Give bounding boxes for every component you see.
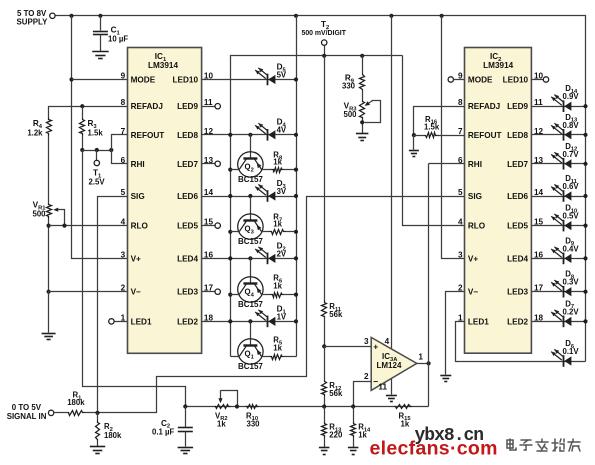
svg-text:V−: V− [131,288,141,297]
svg-text:56k: 56k [329,389,343,398]
wire V- to ground [48,292,50,333]
svg-text:6: 6 [121,156,126,165]
LED D10 [563,220,565,232]
svg-text:LED2: LED2 [177,317,198,326]
resistor R9 [360,74,365,91]
LED D6 [563,355,565,367]
potentiometer VR3 [360,101,365,120]
svg-text:7: 7 [458,127,463,136]
junction R1 R2 sig [95,411,99,415]
junction R14 minus node [351,404,355,408]
resistor R2 [96,421,100,441]
wire bus LED supply [296,16,298,357]
svg-text:1k: 1k [401,419,410,428]
ground IC2 V- [440,375,451,377]
wire R16 ground stub [413,136,415,150]
terminal pin11 nc [215,104,220,109]
svg-text:LED7: LED7 [507,160,528,169]
svg-text:500: 500 [343,110,357,119]
svg-text:1k: 1k [273,158,282,167]
junction D7-bus [583,319,587,323]
wire Q4 emitter [262,294,271,296]
wire R2 bottom [97,441,99,447]
svg-text:V−: V− [468,288,478,297]
wiper VR3 [365,101,381,123]
junction VR3 wiper [360,120,364,124]
svg-text:LED3: LED3 [177,288,198,297]
wire D8 row [532,291,586,293]
LED D4 [267,129,269,141]
wire R7 to bus [286,231,297,233]
resistor R16 [425,133,438,138]
junction Q2 collector [228,168,232,172]
wire ref junction row [83,150,112,152]
svg-text:14: 14 [534,188,544,197]
wire T2 stub [324,46,326,56]
junction mode-supply [69,77,73,81]
svg-text:LM124: LM124 [377,361,402,370]
wire T2 to IC2 RLO [403,56,465,226]
watermark char dian [507,439,516,450]
terminal supply [50,13,55,18]
svg-text:330: 330 [247,419,261,428]
wire bus T2-collector [231,56,403,357]
wire LED3 stub [202,291,215,293]
wire C1 top [100,16,102,31]
svg-text:7: 7 [121,127,126,136]
junction VR2 wiper [235,404,239,408]
wire R13 bottom [324,438,326,448]
svg-text:5V: 5V [277,71,287,80]
wire IC1 SIG [98,197,128,413]
svg-text:LED8: LED8 [507,131,528,140]
transistor Q4 [238,277,263,302]
junction supply-IC1 [69,14,73,18]
svg-text:LM3914: LM3914 [483,61,513,70]
wire IC2 REFADJ [414,107,465,136]
LED D13 [563,129,565,141]
wire RHI-output line [428,164,430,407]
junction R12 R13 node [322,404,326,408]
junction D3-bus [294,194,298,198]
junction D14-bus [583,104,587,108]
wire T1 stub [96,151,98,161]
capacitor C1 [93,31,108,33]
wire R6 to bus [284,294,297,296]
svg-text:500 mV/DIGIT: 500 mV/DIGIT [302,30,347,37]
wire opamp output [417,363,429,365]
svg-text:+: + [373,342,378,352]
wire R8 to bus [284,169,297,171]
svg-text:6: 6 [458,156,463,165]
wire to REFOUT [112,135,128,151]
wire C1 bottom [100,35,102,52]
wire Q3 base [250,197,252,221]
wire IC1 MODE [72,79,128,81]
resistor R15 [395,405,412,409]
svg-text:LED7: LED7 [177,160,198,169]
svg-text:LED9: LED9 [177,102,198,111]
junction R8-bus [294,168,298,172]
svg-text:LED10: LED10 [173,76,199,85]
svg-text:2: 2 [458,284,463,293]
svg-text:0.9V: 0.9V [563,92,580,101]
wire R14 top [353,407,355,423]
svg-text:elecfans·com: elecfans·com [370,438,498,460]
wire signal in [54,412,68,414]
svg-text:2: 2 [364,372,369,381]
junction D13-bus [583,133,587,137]
LED D11 [563,190,565,202]
watermark char you [568,439,580,451]
wire D14 row [532,106,586,108]
wire D10 row [532,225,586,227]
svg-text:REFOUT: REFOUT [131,131,165,140]
junction supply-C1 [98,14,102,18]
resistor R11 [322,301,327,318]
junction supply-IC2 [440,14,444,18]
resistor R5 [270,355,284,360]
junction D12-bus [583,162,587,166]
wire LED7 stub [202,163,215,165]
LED D7 [563,316,565,328]
svg-text:8: 8 [121,98,126,107]
svg-text:0.7V: 0.7V [563,150,580,159]
junction D1-bus [294,319,298,323]
junction D8-bus [583,290,587,294]
wire LED4 row [202,258,297,260]
wire D9 row [532,258,586,260]
svg-text:1k: 1k [217,419,226,428]
LED D14 [563,100,565,112]
svg-text:LED1: LED1 [468,317,489,326]
junction D5-bus [294,77,298,81]
op IC2 LM3914 box [465,48,532,354]
junction Q4 collector [228,293,232,297]
svg-text:SIGNAL IN: SIGNAL IN [7,412,47,421]
wire R3 bottom [82,136,84,151]
svg-text:1: 1 [458,313,463,322]
svg-text:1k: 1k [273,220,282,229]
junction bus1-D4 [228,133,232,137]
svg-text:RLO: RLO [468,222,486,231]
terminal T2 [322,40,327,45]
junction RLO-left [47,224,51,228]
wire IC1 REFADJ [49,107,128,118]
svg-text:9: 9 [121,72,126,81]
LED D8 [563,286,565,298]
svg-text:SIG: SIG [468,192,482,201]
junction R7-bus [294,230,298,234]
wire Q3 collector [231,231,240,233]
svg-text:LED3: LED3 [507,288,528,297]
wire ref to C2 node [83,151,186,407]
terminal signal in [48,410,53,415]
svg-text:BC157: BC157 [238,237,263,246]
watermark char shao [552,439,564,451]
resistor R7 [270,230,286,235]
wire Q1 collector [231,356,240,358]
svg-text:LED4: LED4 [507,254,528,263]
svg-text:0.3V: 0.3V [563,278,580,287]
resistor R1 [68,411,85,416]
svg-text:2V: 2V [277,250,287,259]
wire R1 to node [85,412,98,414]
wire to RHI [112,151,128,164]
svg-text:LED5: LED5 [507,222,528,231]
wire LED2 row [202,321,297,323]
watermark char zi [520,440,532,450]
junction C2 node [183,404,187,408]
svg-text:RHI: RHI [131,160,145,169]
svg-text:3: 3 [121,250,126,259]
wire VR3 bottom [362,120,364,134]
svg-text:220: 220 [329,431,343,440]
wire C2 bottom [185,432,187,447]
junction D2-bus [294,256,298,260]
ground R13 [319,447,330,449]
junction Q3 collector [228,230,232,234]
ground R14 [348,447,359,449]
svg-text:LED5: LED5 [177,222,198,231]
junction base Q2 [248,133,252,137]
svg-text:11: 11 [378,382,387,391]
junction supply-opamp [389,14,393,18]
terminal T1 [94,160,99,165]
wire D13 row [532,134,586,136]
wire R12 top [324,347,326,381]
junction opamp plus [322,344,326,348]
junction D10-bus [583,224,587,228]
LED D2 [267,253,269,265]
svg-text:LED4: LED4 [177,254,198,263]
ground opamp [386,395,397,397]
svg-text:5: 5 [458,188,463,197]
wire Q3 emitter [262,231,270,233]
svg-text:0.1 µF: 0.1 µF [152,427,174,436]
wire R9 to VR3 [362,91,364,101]
junction R6-bus [294,293,298,297]
junction base Q3 [248,194,252,198]
terminal pin15 nc [215,223,220,228]
watermark char fa [536,439,548,451]
svg-text:BC157: BC157 [238,362,263,371]
wire R5 to bus [284,356,297,358]
svg-text:BC157: BC157 [238,300,263,309]
terminal pin13 nc [215,161,220,166]
junction D11-bus [583,194,587,198]
svg-text:REFADJ: REFADJ [468,102,500,111]
svg-text:8: 8 [458,98,463,107]
junction supply-bus [294,14,298,18]
svg-text:LED1: LED1 [131,317,152,326]
wire Q2 collector [231,169,240,171]
wire R2 top [97,413,99,421]
wire IC2 V- [446,292,465,375]
wire IC1 V+ branch [72,16,128,259]
svg-text:V+: V+ [468,254,478,263]
junction T1 stub [95,148,99,152]
wire LED5 stub [202,225,215,227]
wire C2 top [185,407,187,428]
svg-text:330: 330 [342,82,356,91]
potentiometer VR1 [47,204,52,219]
svg-text:3V: 3V [277,187,287,196]
wire opamp V+ line [391,16,393,349]
wire LED8 row [202,134,297,136]
wire Q2 emitter [262,169,272,171]
transistor Q3 [238,214,263,239]
svg-text:56k: 56k [329,310,343,319]
svg-text:1k: 1k [273,344,282,353]
resistor R14 [351,423,356,438]
svg-text:180k: 180k [67,398,85,407]
svg-text:1: 1 [121,313,126,322]
svg-text:LED6: LED6 [507,192,528,201]
wire D7 row [532,321,586,323]
ground C1 [92,51,109,53]
svg-text:9: 9 [458,72,463,81]
wiper VR1 [56,210,65,226]
wire Q1 base [250,322,252,346]
ground R2 [90,446,105,448]
svg-text:V+: V+ [131,254,141,263]
wire top supply rail [56,16,586,362]
svg-text:LM3914: LM3914 [148,61,178,70]
svg-text:LED6: LED6 [177,192,198,201]
svg-text:180k: 180k [104,431,122,440]
svg-text:14: 14 [204,188,214,197]
junction ref node [80,148,84,152]
wire IC2 LED1 to D6 [456,322,586,362]
svg-text:2: 2 [121,284,126,293]
junction Vminus-left [47,290,51,294]
svg-text:0 TO 5V: 0 TO 5V [12,403,42,412]
wire R3 top [82,107,84,119]
junction R16 node [412,133,416,137]
resistor R13 [322,423,327,438]
transistor Q2 [238,152,263,177]
terminal IC2 MODE [448,77,453,82]
svg-text:LED8: LED8 [177,131,198,140]
svg-text:5: 5 [121,188,126,197]
wire IC2 pin10 stub [532,79,544,81]
svg-text:10 µF: 10 µF [108,35,128,44]
svg-text:0.8V: 0.8V [563,121,580,130]
junction base Q4 [248,256,252,260]
svg-text:0.5V: 0.5V [563,212,580,221]
capacitor C2 [178,427,193,429]
wire IC1 V- [49,291,128,293]
wire VR1 to V- node [48,219,50,292]
svg-text:0.2V: 0.2V [563,307,580,316]
wire R9 top [362,56,364,74]
svg-text:REFADJ: REFADJ [131,102,163,111]
svg-text:500: 500 [32,210,46,219]
ground C2 [178,447,194,449]
terminal IC2 pin10 [543,77,548,82]
resistor R10 [246,405,259,409]
wire opamp minus [354,382,372,407]
junction wiper-RLO [62,224,66,228]
LED D5 [267,74,269,86]
svg-text:LED10: LED10 [503,76,529,85]
svg-text:1.5k: 1.5k [424,123,440,132]
wire IC1 LED1 [115,321,128,323]
wire IC2 REFOUT [438,135,465,137]
wire opamp pin11 stub [391,379,393,395]
LED D1 [267,316,269,328]
junction bus1-D3 [228,194,232,198]
svg-text:1k: 1k [358,431,367,440]
wire LED6 row [202,196,297,198]
wire R16 stub [414,135,425,137]
svg-text:1: 1 [418,353,423,362]
junction D4-bus [294,133,298,137]
junction opamp out [427,361,431,365]
svg-text:1k: 1k [273,282,282,291]
ground IC1 V- [42,333,56,335]
svg-text:SUPPLY: SUPPLY [17,18,49,27]
ground R16 [409,150,419,152]
junction bus1-D2 [228,256,232,260]
wiper VR2 [221,391,238,407]
op-amp U IC3A LM124 [371,337,417,390]
svg-text:SIG: SIG [131,192,145,201]
wire IC1 RLO [49,225,128,227]
wire D11 row [532,196,586,198]
svg-text:BC157: BC157 [238,175,263,184]
svg-text:0.6V: 0.6V [563,182,580,191]
junction base Q1 [248,319,252,323]
terminal pin17 nc [215,289,220,294]
wire R4 to VR1 [48,136,50,204]
wire LED10 row [202,79,297,81]
wire IC2 RHI row [429,163,465,165]
terminal IC1 LED1 [109,319,114,324]
svg-text:2.5V: 2.5V [89,178,106,187]
wire LED9 stub [202,106,215,108]
svg-text:11: 11 [204,98,213,107]
transistor Q1 [238,339,263,364]
LED D12 [563,158,565,170]
svg-text:11: 11 [534,98,543,107]
resistor R4 [47,118,52,136]
wire Q4 base [250,259,252,284]
junction T2 line [322,54,326,58]
svg-text:4: 4 [121,218,126,227]
resistor R6 [271,293,284,298]
wire Q4 collector [231,294,240,296]
resistor R12 [322,381,327,397]
svg-text:4V: 4V [277,126,287,135]
junction refout-rhi [109,148,113,152]
svg-text:1V: 1V [277,313,287,322]
svg-text:RLO: RLO [131,222,149,231]
junction REFADJ-R3 [80,104,84,108]
svg-text:0.4V: 0.4V [563,244,580,253]
svg-text:1.2k: 1.2k [27,129,43,138]
svg-text:1.5k: 1.5k [88,129,104,138]
wire signal to IC2 SIG [98,197,465,413]
svg-text:4: 4 [458,218,463,227]
wire Q2 base [250,135,252,159]
wire to opamp plus [325,346,372,348]
wire IC2 V+ branch [442,16,465,259]
svg-text:3: 3 [458,250,463,259]
svg-text:LED2: LED2 [507,317,528,326]
svg-text:REFOUT: REFOUT [468,131,502,140]
